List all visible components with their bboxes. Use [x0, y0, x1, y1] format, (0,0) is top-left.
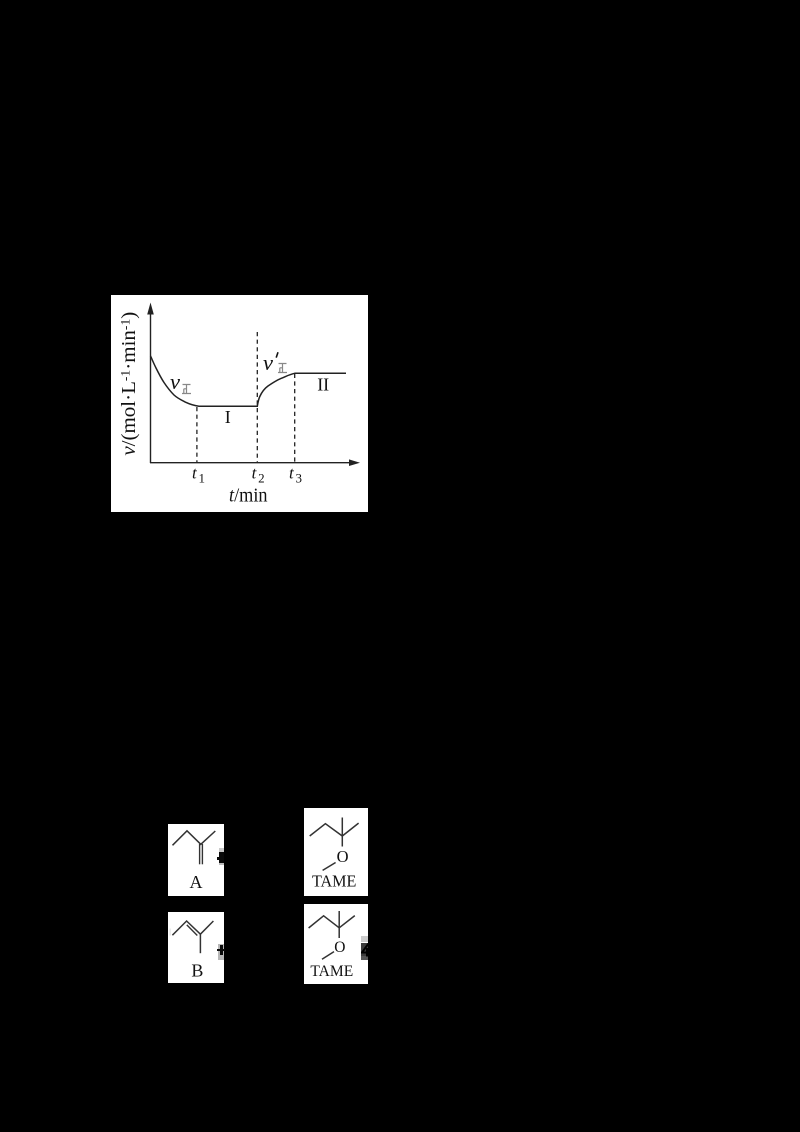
methyl down bond [199, 934, 201, 953]
skeletal bonds of TAME [310, 823, 359, 836]
svg-text:O: O [335, 939, 346, 956]
C=C double bond of A [199, 844, 201, 864]
dashed line t2 [256, 332, 258, 463]
svg-text:v: v [170, 369, 180, 394]
svg-text:t1: t1 [192, 464, 205, 486]
partial numeral 4 [362, 943, 369, 956]
molecule box TAME (lower) [304, 904, 368, 985]
y-axis [150, 311, 152, 463]
molecule box A (2-methyl-1-butene) [168, 824, 224, 897]
svg-text:TAME: TAME [312, 872, 357, 891]
clipped arrow artifact right of box B [218, 944, 224, 960]
kinetics chart panel [111, 295, 368, 512]
C-O bond [339, 927, 341, 937]
svg-text:O: O [337, 847, 349, 866]
svg-text:t3: t3 [289, 464, 302, 486]
methyl up bond [339, 911, 341, 928]
rate curve [151, 356, 347, 406]
skeletal bonds of B [172, 921, 213, 935]
O-CH3 bond [322, 951, 334, 959]
faint grey mark inside left edge [169, 928, 171, 935]
molecule box TAME (upper) [304, 808, 368, 896]
clipped arrow artifact right of box A [219, 848, 225, 852]
methyl up bond [341, 818, 343, 837]
skeletal bonds of TAME [309, 915, 355, 927]
svg-text:I: I [225, 407, 231, 427]
svg-text:A: A [190, 871, 203, 891]
svg-text:II: II [317, 375, 329, 395]
C-O bond [341, 836, 343, 847]
svg-text:t2: t2 [252, 464, 265, 486]
正 subscript glyph (drawn) [278, 364, 287, 373]
y-axis arrowhead [147, 303, 154, 315]
svg-text:v/(mol·L-1·min-1): v/(mol·L-1·min-1) [117, 312, 140, 456]
svg-text:TAME: TAME [311, 963, 354, 980]
molecule box B (2-methyl-2-butene) [168, 912, 224, 984]
clipped "4" artifact right of lower TAME box [361, 936, 368, 943]
x-axis arrowhead [349, 459, 360, 466]
svg-text:v: v [263, 350, 273, 375]
dashed line t1 [196, 407, 198, 463]
skeletal bonds of A [173, 830, 216, 845]
正 subscript glyph (drawn) [182, 385, 191, 394]
svg-text:t/min: t/min [229, 485, 268, 506]
O-CH3 bond [322, 863, 335, 871]
svg-text:B: B [191, 960, 203, 980]
dashed line t3 [294, 374, 296, 463]
C=C double bond of B (parallel inner line) [186, 925, 197, 936]
x-axis [150, 462, 351, 464]
